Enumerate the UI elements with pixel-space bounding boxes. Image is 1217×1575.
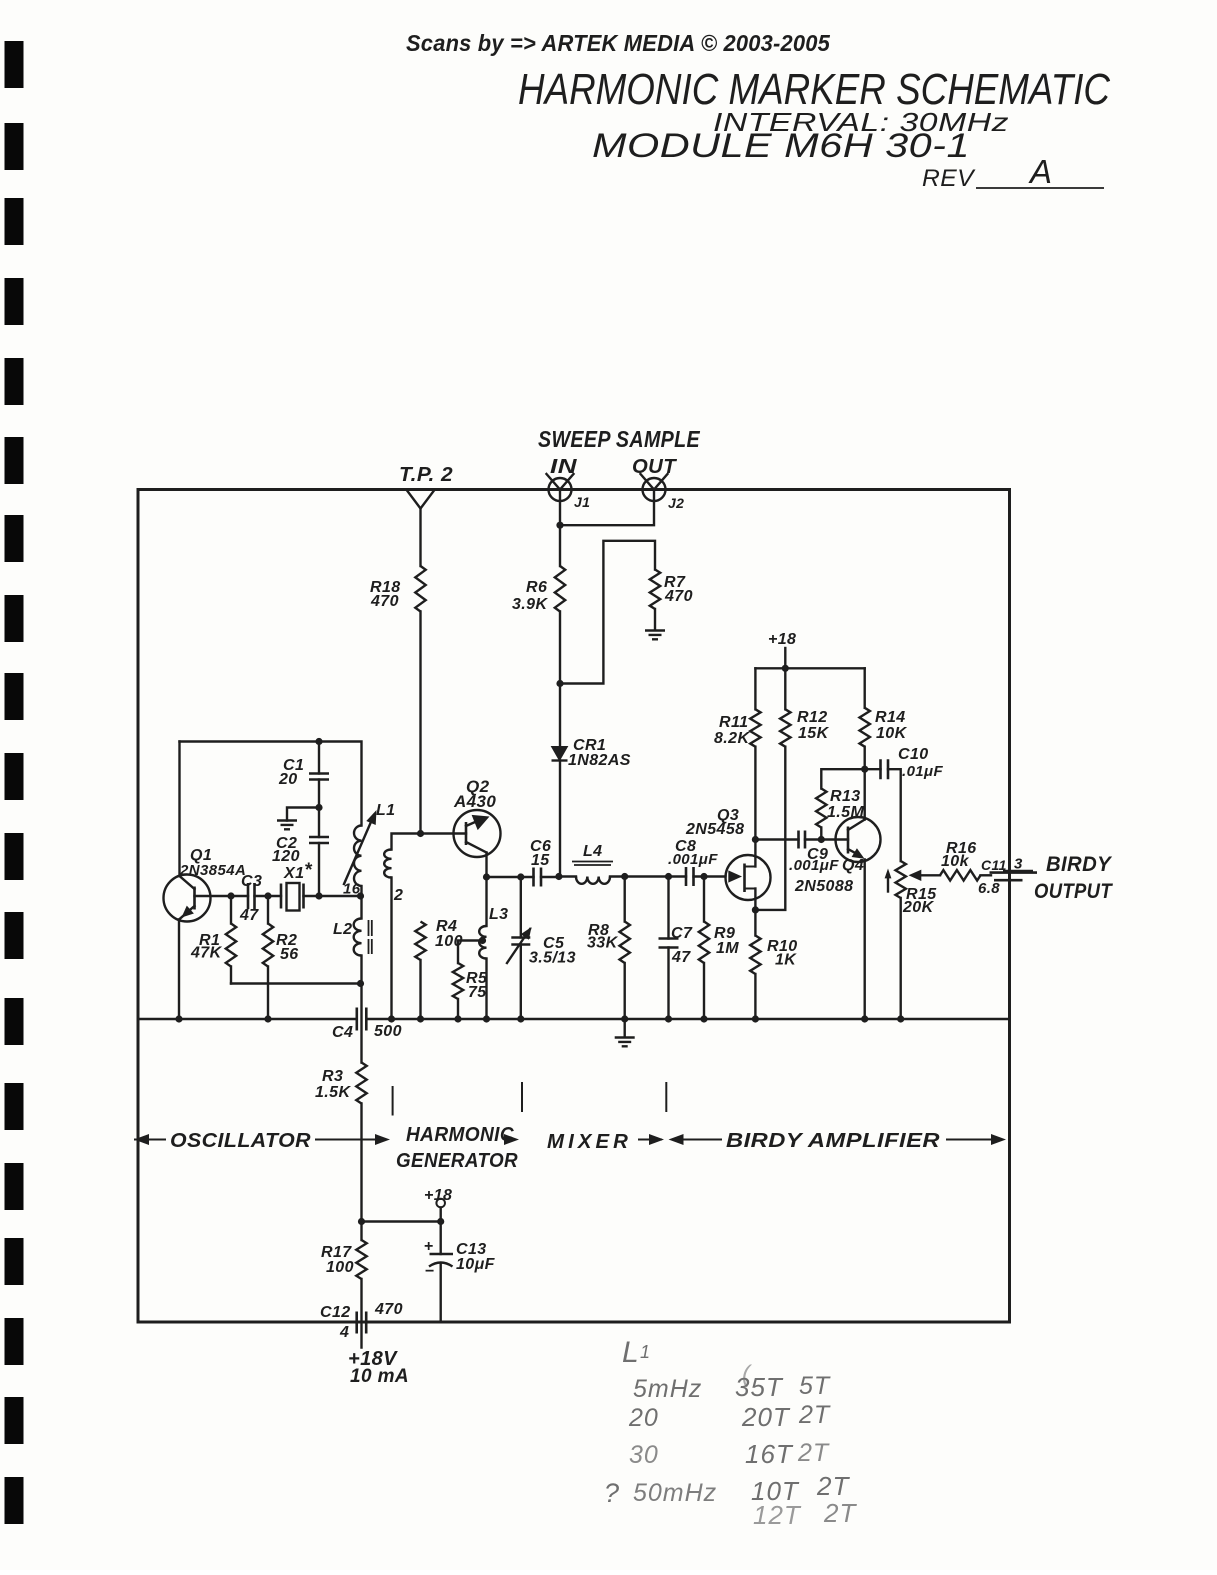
node L4/R8 <box>621 873 628 880</box>
resistor R9 1M <box>703 877 705 922</box>
svg-text:BIRDY AMPLIFIER: BIRDY AMPLIFIER <box>726 1130 940 1152</box>
node rail x=520.8 <box>517 1015 524 1022</box>
capacitor C6 15 <box>534 868 542 887</box>
svg-text:C10: C10 <box>898 746 929 763</box>
svg-text:2N5088: 2N5088 <box>794 878 853 895</box>
svg-text:20: 20 <box>278 771 298 788</box>
node rail x=900.7 <box>897 1015 904 1022</box>
svg-text:GENERATOR: GENERATOR <box>396 1150 518 1172</box>
wire +18 link <box>362 1220 441 1222</box>
resistor R17 100 <box>360 1222 362 1241</box>
svg-text:1M: 1M <box>716 940 739 957</box>
connector J1 <box>549 478 572 501</box>
svg-text:L: L <box>622 1336 640 1369</box>
svg-text:470: 470 <box>374 1301 403 1318</box>
svg-text:1: 1 <box>640 1342 651 1362</box>
svg-text:10μF: 10μF <box>456 1256 496 1273</box>
section divider tick 1 <box>392 1086 394 1116</box>
svg-text:SWEEP SAMPLE: SWEEP SAMPLE <box>538 426 700 452</box>
node Q3 source <box>752 906 759 913</box>
wire L3 tap to R5 <box>458 941 483 964</box>
svg-text:C4: C4 <box>332 1024 353 1041</box>
ground (oscillator) <box>277 821 297 830</box>
wire Q1 emitter down to rail <box>178 920 180 1019</box>
wire Q2 collector down <box>485 853 487 878</box>
svg-text:MIXER: MIXER <box>547 1131 632 1153</box>
node rail x=864.7 <box>861 1015 868 1022</box>
capacitor C9 .001uF <box>755 838 798 840</box>
svg-text:47: 47 <box>239 907 259 924</box>
svg-text:3.9K: 3.9K <box>512 596 548 613</box>
svg-text:470: 470 <box>664 588 693 605</box>
section label OSCILLATOR <box>134 1134 149 1145</box>
resistor R11 8.2K <box>754 668 756 709</box>
wire R12 to Q3 source <box>755 747 785 910</box>
node base/R1 <box>227 892 234 899</box>
svg-text:Q4: Q4 <box>842 857 864 874</box>
svg-text:J2: J2 <box>668 495 684 511</box>
svg-text:OUTPUT: OUTPUT <box>1034 880 1114 903</box>
transistor Q2 A430 <box>454 810 501 857</box>
ground at mixer <box>624 1019 626 1037</box>
svg-text:X1: X1 <box>283 865 304 882</box>
svg-text:MODULE M6H 30-1: MODULE M6H 30-1 <box>592 127 970 165</box>
wire junction to J2 <box>560 501 654 525</box>
potentiometer R15 20K <box>896 861 906 898</box>
wire Q1 base to C3 <box>195 895 249 897</box>
inductor L1 <box>354 826 362 886</box>
node Q2 collector <box>483 873 490 880</box>
crystal X1 <box>280 884 283 909</box>
wire R5 to rail <box>457 999 459 1018</box>
node rail x=668.5 <box>665 1015 672 1022</box>
wire +18 rail <box>755 667 864 669</box>
transistor Q3 2N5458 (JFET) <box>726 855 771 900</box>
node C3/R2/X1 <box>264 892 271 899</box>
svg-text:A430: A430 <box>453 792 496 811</box>
svg-text:47: 47 <box>671 949 691 966</box>
svg-text:8.2K: 8.2K <box>714 730 750 747</box>
wire R17 to C12 <box>360 1279 362 1348</box>
svg-text:12T: 12T <box>753 1500 802 1530</box>
section label BIRDY AMPLIFIER <box>669 1134 684 1145</box>
node rail x=268 <box>264 1015 271 1022</box>
node J1/J2 junction <box>556 522 563 529</box>
svg-text:10k: 10k <box>941 853 970 870</box>
svg-text:6.8: 6.8 <box>978 880 1000 897</box>
wire L3 to rail <box>485 959 487 1019</box>
transistor Q4 2N5088 <box>836 817 881 862</box>
svg-text:.001μF: .001μF <box>789 857 839 874</box>
svg-text:BIRDY: BIRDY <box>1046 853 1113 876</box>
svg-text:100: 100 <box>326 1259 354 1276</box>
resistor R8 33K <box>624 877 626 922</box>
wire L2 to C4 node <box>360 956 362 984</box>
diode CR1 1N82AS <box>552 747 568 761</box>
node rail x=391.5 <box>388 1015 395 1022</box>
capacitor C8 .001uF <box>669 875 687 877</box>
svg-text:2T: 2T <box>816 1471 850 1501</box>
resistor R18 <box>415 566 425 611</box>
wire ground rail <box>138 1018 357 1020</box>
svg-text:56: 56 <box>280 946 299 963</box>
node C7 <box>665 873 672 880</box>
svg-text:2: 2 <box>393 887 403 904</box>
wire J1 down to junction <box>559 501 561 525</box>
wire J1 junction down to R6 <box>559 525 561 566</box>
svg-text:16T: 16T <box>745 1439 794 1469</box>
section divider tick 2 <box>521 1082 523 1112</box>
variable capacitor C5 3.5/13 <box>511 938 530 945</box>
resistor R7 <box>650 570 660 609</box>
svg-text:OSCILLATOR: OSCILLATOR <box>170 1130 311 1152</box>
svg-text:IN: IN <box>550 456 577 478</box>
node base wire / R18R4 line <box>417 830 424 837</box>
svg-text:15: 15 <box>531 852 550 869</box>
ground below R7 <box>645 631 665 640</box>
resistor R3 1.5K <box>356 1063 366 1104</box>
svg-text:75: 75 <box>468 984 487 1001</box>
svg-text:10K: 10K <box>876 725 908 742</box>
wire to chassis ground <box>287 808 319 821</box>
resistor R1 47K <box>230 896 232 924</box>
svg-text:C11: C11 <box>981 857 1007 873</box>
svg-text:+18: +18 <box>424 1187 452 1204</box>
wire oscillator top rail <box>180 742 362 826</box>
wire R6 node down to CR1 <box>559 684 561 747</box>
svg-text:R13: R13 <box>830 788 861 805</box>
wire R8 node to C7/C8 <box>625 875 669 877</box>
svg-text:2N5458: 2N5458 <box>685 821 744 838</box>
node rail x=624.7 <box>621 1015 628 1022</box>
svg-text:2T: 2T <box>798 1401 831 1429</box>
svg-text:A: A <box>1028 153 1052 190</box>
svg-text:.01μF: .01μF <box>902 763 943 780</box>
svg-text:.001μF: .001μF <box>668 851 718 868</box>
wire R13 up to C10 node <box>821 769 864 788</box>
resistor R5 75 <box>453 963 463 999</box>
svg-text:15K: 15K <box>798 725 830 742</box>
svg-text:1.5K: 1.5K <box>315 1084 351 1101</box>
svg-text:1N82AS: 1N82AS <box>568 752 631 769</box>
adjust arrow through L1 <box>344 815 374 884</box>
node L1 tap 16 <box>357 892 364 899</box>
svg-text:2T: 2T <box>797 1439 830 1467</box>
svg-text:5mHz: 5mHz <box>633 1375 702 1403</box>
svg-text:Scans by => ARTEK MEDIA © 200: Scans by => ARTEK MEDIA © 2003-2005 <box>406 30 831 56</box>
capacitor C3 47 <box>248 883 255 909</box>
feedthrough capacitor C12 470 <box>357 1312 367 1334</box>
wire TP2 down to R18 <box>419 509 421 567</box>
svg-text:REV: REV <box>922 165 976 192</box>
node L2 bottom <box>357 980 364 987</box>
resistor R10 1K <box>754 910 756 936</box>
wire winding bottom to rail <box>390 878 392 1019</box>
feedthrough capacitor C4 500 <box>357 1008 367 1031</box>
node rail x=486.5 <box>483 1015 490 1022</box>
node rail x=420.5 <box>417 1015 424 1022</box>
svg-text:1K: 1K <box>775 952 797 969</box>
svg-text:2T: 2T <box>823 1498 857 1528</box>
node L3 tap <box>479 937 486 944</box>
inductor L3 <box>485 877 487 926</box>
resistor R6 <box>555 566 565 611</box>
wire C1 to ground node <box>318 780 320 838</box>
wire R18 to harmonic generator node <box>419 612 421 834</box>
svg-text:−: − <box>425 1263 435 1280</box>
svg-text:20: 20 <box>628 1404 659 1432</box>
svg-text:R3: R3 <box>322 1068 343 1085</box>
node mixer input <box>555 873 562 880</box>
svg-text:33K: 33K <box>587 935 619 952</box>
node rail x=458 <box>454 1015 461 1022</box>
svg-text:C7: C7 <box>671 925 693 942</box>
wire collector node to C5/C6 <box>487 876 534 878</box>
svg-text:4: 4 <box>339 1324 349 1341</box>
svg-text:OUT: OUT <box>632 456 677 478</box>
resistor R13 1.5M <box>820 828 822 840</box>
resistor R14 10K <box>864 668 866 708</box>
connector J2 <box>643 478 666 501</box>
node rail x=755.4 <box>752 1015 759 1022</box>
resistor R2 56 <box>267 896 269 924</box>
svg-text:35T: 35T <box>735 1372 784 1402</box>
node C13 top <box>437 1218 444 1225</box>
capacitor C10 .01uF <box>865 768 881 770</box>
svg-text:50mHz: 50mHz <box>633 1479 717 1507</box>
svg-text:3.5/13: 3.5/13 <box>529 950 576 967</box>
node R14/C10/R13 <box>861 766 868 773</box>
wire R7 to ground <box>654 609 656 630</box>
node Q3 drain <box>752 836 759 843</box>
wire CR1 to mixer node <box>559 761 561 877</box>
svg-text:R6: R6 <box>526 579 547 596</box>
module enclosure border <box>138 490 1010 1323</box>
node C5 top <box>517 873 524 880</box>
svg-text:HARMONIC: HARMONIC <box>406 1124 514 1146</box>
svg-text:20T: 20T <box>741 1402 791 1432</box>
resistor R4 100 <box>415 922 425 961</box>
node C1/C2/ground <box>315 804 322 811</box>
wire L2 node through C4 down to R3 <box>360 984 362 1063</box>
node C9/R13/Q4 base <box>818 836 825 843</box>
wire R1 bottom to L2 bottom <box>231 982 361 984</box>
node X1/C2 <box>315 892 322 899</box>
capacitor C2 120 <box>309 837 329 843</box>
svg-text:20K: 20K <box>902 899 935 916</box>
node R6 bottom <box>556 680 563 687</box>
wire C2 to crystal node <box>318 843 320 896</box>
svg-text:500: 500 <box>374 1023 402 1040</box>
section divider tick 3 <box>665 1082 667 1112</box>
feedthrough capacitor C11 6.8 <box>990 871 1038 874</box>
svg-text:30: 30 <box>629 1441 659 1469</box>
capacitor C7 47 <box>667 877 669 939</box>
svg-text:5T: 5T <box>799 1372 831 1400</box>
svg-text:L4: L4 <box>583 843 602 860</box>
svg-text:1.5M: 1.5M <box>827 804 864 821</box>
wire Q4 collector <box>864 769 866 819</box>
wire Q1 collector riser <box>178 742 180 877</box>
wire Q4 emitter to rail <box>864 860 866 1019</box>
svg-text:R12: R12 <box>797 709 828 726</box>
svg-text:C12: C12 <box>320 1304 351 1321</box>
wire R6 to CR1 node <box>559 612 561 684</box>
wire R3 down to R17 node <box>360 1104 362 1222</box>
inductor L4 <box>559 875 576 877</box>
node C8/R9/Q3 gate <box>700 873 707 880</box>
electrolytic capacitor C13 10uF <box>440 1222 442 1255</box>
inductor L2 <box>360 896 362 919</box>
svg-text:47K: 47K <box>190 945 223 962</box>
svg-text:L3: L3 <box>489 906 508 923</box>
secondary winding (2 turns) <box>392 834 467 850</box>
R15 wiper up arrow <box>887 875 889 892</box>
wire R2 to rail <box>267 967 269 1019</box>
svg-text:+18: +18 <box>768 631 796 648</box>
svg-text:R14: R14 <box>875 709 906 726</box>
svg-text:T.P. 2: T.P. 2 <box>399 464 453 486</box>
node R17/+18 <box>358 1218 365 1225</box>
svg-text:J1: J1 <box>574 494 590 510</box>
svg-text:10 mA: 10 mA <box>350 1366 409 1387</box>
svg-text:*: * <box>305 860 313 881</box>
svg-text:120: 120 <box>272 848 300 865</box>
svg-text:R11: R11 <box>719 714 748 731</box>
node rail x=179 <box>175 1015 182 1022</box>
wire loop from R6 node up to R7 <box>560 541 655 684</box>
wire R4 to rail <box>419 960 421 1018</box>
node C1 top <box>315 738 322 745</box>
svg-text:C3: C3 <box>241 873 262 890</box>
svg-text:?: ? <box>604 1478 620 1508</box>
svg-text:+: + <box>424 1238 434 1255</box>
svg-text:2N3854A: 2N3854A <box>179 862 246 879</box>
wiper wire from R16 <box>920 874 940 876</box>
capacitor C1 20 <box>318 742 320 774</box>
transistor Q1 2N3854A <box>164 875 211 922</box>
resistor R16 10k <box>940 870 981 880</box>
node rail x=704 <box>700 1015 707 1022</box>
resistor R12 15K <box>784 668 786 709</box>
svg-text:470: 470 <box>370 593 399 610</box>
node +18 <box>782 665 789 672</box>
svg-text:L2: L2 <box>333 921 352 938</box>
svg-text:L1: L1 <box>376 802 395 819</box>
